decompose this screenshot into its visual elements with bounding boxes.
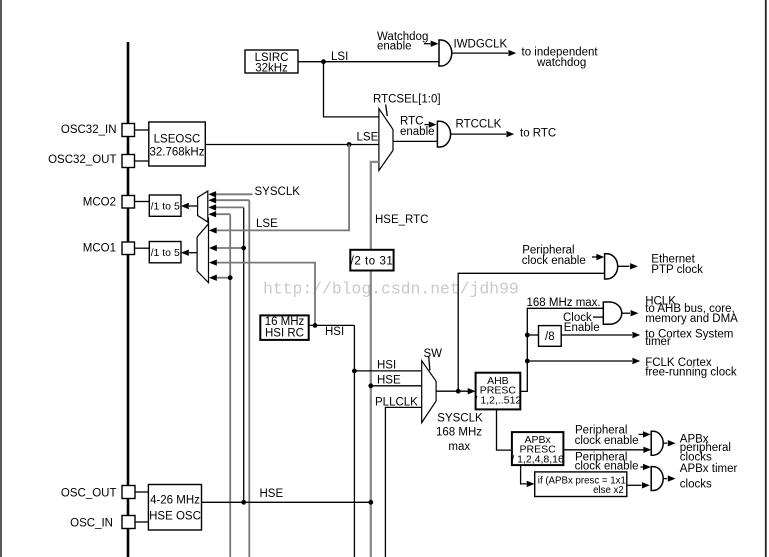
svg-text:16 MHz: 16 MHz <box>265 316 305 328</box>
pin OSC_IN <box>122 516 135 529</box>
svg-text:IWDGCLK: IWDGCLK <box>454 39 508 51</box>
svg-text:/1 to 5: /1 to 5 <box>151 247 180 259</box>
wire MCO2 in3 <box>214 206 244 208</box>
svg-text:LSI: LSI <box>331 51 348 63</box>
svg-text:168 MHz max.: 168 MHz max. <box>527 297 601 309</box>
svg-text:LSE: LSE <box>256 218 278 230</box>
svg-text:max: max <box>448 441 470 453</box>
svg-text:OSC_OUT: OSC_OUT <box>61 488 117 500</box>
wire: MCO2 mux input4 vertical <box>229 214 231 557</box>
AND gate Ethernet PTP <box>605 254 618 279</box>
svg-text:SYSCLK: SYSCLK <box>255 186 301 198</box>
svg-text:HSE: HSE <box>377 375 401 387</box>
mux MCO2 <box>198 191 208 222</box>
pin MCO2 <box>122 196 135 209</box>
wire to Cortex System timer <box>561 332 640 338</box>
wire LSE down to MCO1 mux <box>215 145 349 231</box>
divider MCO1 /1 to 5 <box>149 242 181 263</box>
wire APBx PRESC down to if box <box>521 465 535 487</box>
svg-text:OSC_IN: OSC_IN <box>70 518 113 530</box>
wire FCLK <box>527 358 640 364</box>
wire MCO2 mux output <box>189 205 198 207</box>
svg-text:clocks: clocks <box>680 451 712 463</box>
svg-text:free-running clock: free-running clock <box>645 366 737 378</box>
svg-text:enable: enable <box>400 126 435 138</box>
wire OSC_OUT to HSE OSC <box>135 491 148 493</box>
svg-text:LSEOSC: LSEOSC <box>154 134 201 146</box>
junction HCLK to /8 <box>525 333 530 338</box>
svg-text:/ 1,2,4,8,16: / 1,2,4,8,16 <box>511 454 564 466</box>
arrow ethernet clock enable <box>592 254 604 260</box>
junction HSE main <box>368 500 373 505</box>
svg-text:OSC32_IN: OSC32_IN <box>61 124 117 136</box>
arrowhead MCO1 in3 <box>209 259 217 265</box>
svg-text:HSE: HSE <box>260 488 284 500</box>
wire OSC32_IN to LSE OSC <box>135 129 149 131</box>
wire HSI into SW mux <box>354 370 421 372</box>
wire: HSE_RTC / HSE vertical bus <box>370 162 372 557</box>
arrowhead MCO2 output <box>181 203 189 209</box>
prescaler APBx PRESC <box>511 432 564 465</box>
junction HSE to MCO line <box>241 500 246 505</box>
svg-text:32kHz: 32kHz <box>255 63 288 75</box>
svg-text:SW: SW <box>424 348 443 360</box>
svg-text:enable: enable <box>377 41 412 53</box>
svg-text:RTCSEL[1:0]: RTCSEL[1:0] <box>373 93 441 105</box>
svg-text:RTCCLK: RTCCLK <box>456 119 502 131</box>
svg-text:clock enable: clock enable <box>522 255 586 267</box>
svg-text:HSI: HSI <box>325 326 344 338</box>
wire LSE to RTCSEL mux <box>205 144 379 146</box>
pin MCO1 <box>122 242 135 255</box>
svg-text:HSI RC: HSI RC <box>265 328 304 340</box>
divider /8 <box>539 326 562 347</box>
wire APBx PRESC to peripheral gate <box>563 447 651 453</box>
svg-text:/8: /8 <box>545 331 555 343</box>
junction HSE at SW <box>368 383 373 388</box>
svg-text:PLLCLK: PLLCLK <box>375 397 418 409</box>
wire if box to timer gate <box>627 482 650 488</box>
SW select stub <box>429 357 430 371</box>
RTCSEL select stub <box>386 105 388 117</box>
wire RTCCLK <box>451 131 514 137</box>
wire HCLK output <box>622 310 639 316</box>
wire APBx timer clocks output <box>663 475 675 481</box>
junction HSI branch to MCO1 <box>313 323 318 328</box>
svg-text:http://blog.csdn.net/jdh99: http://blog.csdn.net/jdh99 <box>263 280 519 299</box>
svg-text:PTP clock: PTP clock <box>651 264 703 276</box>
wire Ethernet PTP output <box>618 263 638 269</box>
wire: HSE vertical to MCO muxes <box>243 207 245 502</box>
junction MCO1 in2 <box>241 246 246 251</box>
wire MCO1 mux output <box>189 252 197 254</box>
divider MCO2 /1 to 5 <box>149 195 181 216</box>
oscillator HSI RC 16 MHz <box>260 315 308 340</box>
svg-text:watchdog: watchdog <box>536 57 586 69</box>
clock enable tick <box>593 316 603 318</box>
wire HSE into SW mux <box>371 385 422 387</box>
wire: PLLCLK vertical <box>385 407 421 557</box>
arrow APBx timer clock enable <box>641 464 651 470</box>
arrowhead MCO2 in3 <box>208 204 216 210</box>
svg-text:memory and DMA: memory and DMA <box>645 313 738 325</box>
wire HSE_RTC into RTCSEL mux <box>371 162 379 163</box>
junction HCLK to FCLK <box>525 359 530 364</box>
svg-text:MCO2: MCO2 <box>83 197 116 209</box>
wire HSI from box <box>309 324 355 326</box>
svg-text:MCO1: MCO1 <box>83 243 116 255</box>
AND gate U2 RTC <box>437 121 450 147</box>
MCO1 select stub <box>207 218 209 231</box>
wire SYSCLK output of SW mux <box>436 390 468 392</box>
svg-text:/1 to 5: /1 to 5 <box>151 201 180 213</box>
wire SYSCLK up to ethernet gate <box>458 273 604 391</box>
wire: MCO2 mux input2 vertical <box>248 200 250 557</box>
prescaler AHB PRESC <box>475 373 522 410</box>
junction LSE <box>347 142 352 147</box>
arrowhead MCO2 in2 <box>208 197 216 203</box>
pin OSC_OUT <box>122 486 135 499</box>
svg-text:clock enable: clock enable <box>575 461 639 473</box>
svg-text:HSE_RTC: HSE_RTC <box>375 214 428 226</box>
svg-text:SYSCLK: SYSCLK <box>437 413 483 425</box>
svg-text:OSC32_OUT: OSC32_OUT <box>48 154 116 166</box>
pin OSC32_IN <box>122 124 135 137</box>
divider /2 to 31 <box>350 250 393 271</box>
svg-text:clocks: clocks <box>680 479 712 491</box>
arrowhead SYSCLK into AHB PRESC <box>468 388 476 394</box>
wire MCO1 pin to divider <box>135 247 150 249</box>
chip boundary <box>127 42 130 557</box>
svg-text:/ 1,2,..512: / 1,2,..512 <box>475 394 522 406</box>
junction MCO1 in4 <box>228 275 233 280</box>
wire HSE main <box>202 501 371 503</box>
wire SYSCLK into MCO2 <box>214 193 253 195</box>
AND gate APBx peripheral <box>651 431 663 455</box>
condition box if APBx presc <box>535 472 627 497</box>
svg-text:HSE OSC: HSE OSC <box>149 511 201 523</box>
oscillator HSE OSC 4-26 MHz <box>148 485 201 531</box>
arrow RTC enable <box>425 121 437 127</box>
wire APBx peripheral clocks output <box>663 440 675 446</box>
svg-text:Enable: Enable <box>564 322 600 334</box>
arrowhead MCO2 in4 <box>208 211 216 217</box>
svg-text:4-26 MHz: 4-26 MHz <box>150 495 200 507</box>
svg-text:clock enable: clock enable <box>575 435 639 447</box>
wire MCO2 in2 <box>214 199 249 201</box>
svg-text:to RTC: to RTC <box>520 128 556 140</box>
arrowhead MCO1 in4 <box>209 275 217 281</box>
wire to /8 divider <box>527 334 538 336</box>
junction LSI <box>321 59 326 64</box>
wire MCO2 pin to divider <box>135 201 150 203</box>
svg-text:HSI: HSI <box>377 360 396 372</box>
wire: HSI vertical bus <box>353 325 355 557</box>
page border right <box>765 0 767 557</box>
svg-text:else x2: else x2 <box>593 485 624 496</box>
wire MCO2 in4 <box>214 213 230 215</box>
junction SYSCLK <box>456 389 461 394</box>
svg-text:/2 to 31: /2 to 31 <box>351 256 394 268</box>
wire MCO1 in4 <box>215 277 231 279</box>
mux SW <box>422 361 436 423</box>
junction HSI at SW <box>352 369 357 374</box>
arrow watchdog enable <box>424 41 439 47</box>
arrowhead LSE into MCO1 <box>209 227 217 233</box>
page border left <box>0 0 2 557</box>
pin OSC32_OUT <box>122 155 135 168</box>
AND gate HCLK <box>603 302 621 324</box>
AND gate APBx timer <box>651 467 663 491</box>
wire MCO1 in2 <box>215 247 244 249</box>
arrow APBx peripheral clock enable <box>639 431 651 437</box>
svg-text:168 MHz: 168 MHz <box>436 427 482 439</box>
AND gate U1 IWDG <box>439 40 452 66</box>
svg-text:32.768kHz: 32.768kHz <box>150 147 205 159</box>
wire OSC_IN to HSE OSC <box>135 521 148 523</box>
mux RTCSEL <box>379 109 393 171</box>
wire AHB PRESC output <box>520 308 603 391</box>
wire IWDGCLK <box>452 50 516 56</box>
mux MCO1 <box>197 224 208 283</box>
wire MCO1 in3 from HSI <box>215 263 316 326</box>
wire OSC32_OUT to LSE OSC <box>135 160 149 162</box>
wire AHB PRESC down to APBx PRESC <box>497 409 512 450</box>
arrowhead MCO1 in2 <box>209 245 217 251</box>
svg-text:LSE: LSE <box>357 132 379 144</box>
oscillator LSE OSC 32.768 kHz <box>149 122 206 166</box>
svg-text:timer: timer <box>645 336 671 348</box>
svg-text:APBx timer: APBx timer <box>680 463 738 475</box>
wire RTCSEL mux to RTC gate <box>393 140 437 142</box>
arrowhead MCO2 in1 <box>208 191 216 197</box>
oscillator LSI RC 32 kHz <box>245 50 298 75</box>
arrowhead MCO1 output <box>181 250 189 256</box>
wire LSI <box>298 62 438 117</box>
